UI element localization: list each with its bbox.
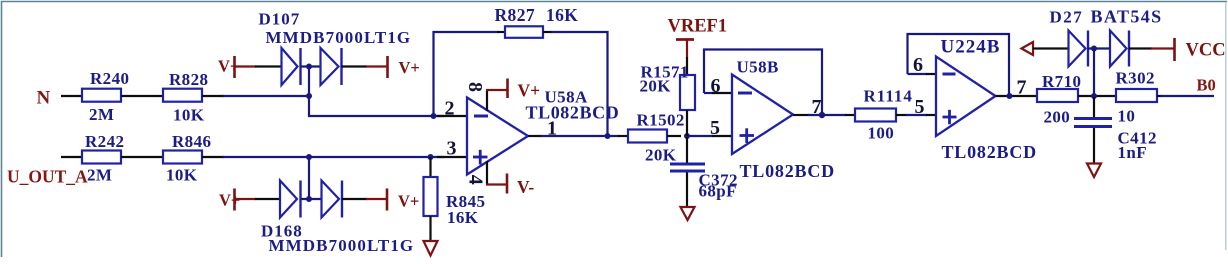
diode D27 BAT54S xyxy=(1050,7,1163,67)
wire R240 to R828 xyxy=(121,95,163,97)
resistor R1571 xyxy=(640,57,696,136)
resistor R240 xyxy=(82,69,129,124)
svg-text:D107: D107 xyxy=(259,10,301,29)
power VREF1 xyxy=(668,17,728,59)
svg-text:U224B: U224B xyxy=(941,37,1001,58)
svg-text:D27: D27 xyxy=(1050,8,1084,27)
pin 8 power stub xyxy=(486,90,488,111)
capacitor C412 xyxy=(1074,97,1157,164)
junction node pin5 U58B xyxy=(684,133,690,139)
wire to D107 anode xyxy=(255,65,282,67)
svg-text:BAT54S: BAT54S xyxy=(1091,7,1163,27)
svg-text:VREF1: VREF1 xyxy=(668,17,728,37)
svg-text:V+: V+ xyxy=(399,58,420,77)
svg-text:10K: 10K xyxy=(173,106,205,125)
svg-text:100: 100 xyxy=(868,124,895,143)
svg-text:2: 2 xyxy=(445,98,455,120)
svg-text:R846: R846 xyxy=(172,132,211,151)
svg-text:B0: B0 xyxy=(1197,76,1216,95)
feedback wire U58B loop xyxy=(704,50,822,116)
svg-text:R828: R828 xyxy=(169,70,208,89)
diode D168 xyxy=(261,181,414,256)
power V- bar at pin 4 xyxy=(486,174,534,198)
svg-text:16K: 16K xyxy=(447,208,479,227)
svg-text:U_OUT_A: U_OUT_A xyxy=(7,167,88,187)
svg-text:TL082BCD: TL082BCD xyxy=(942,142,1037,162)
wire D168 cathode to V+ xyxy=(342,198,367,200)
svg-text:R240: R240 xyxy=(90,69,129,88)
pin 4 power stub xyxy=(486,161,488,185)
wire to D168 anode xyxy=(255,198,280,200)
svg-text:16K: 16K xyxy=(546,5,578,25)
wire U58B output xyxy=(793,114,809,116)
svg-text:6: 6 xyxy=(913,54,923,76)
svg-text:6: 6 xyxy=(711,75,721,97)
svg-text:7: 7 xyxy=(812,96,822,118)
svg-text:2M: 2M xyxy=(87,166,112,185)
junction row2/D168 column xyxy=(306,154,312,160)
svg-text:3: 3 xyxy=(447,138,457,160)
svg-text:1nF: 1nF xyxy=(1118,143,1148,162)
wire pin6 U58B xyxy=(704,92,713,94)
svg-text:TL082BCD: TL082BCD xyxy=(740,161,835,181)
svg-text:VCC: VCC xyxy=(1186,41,1226,61)
wire pin6 U224B xyxy=(908,73,928,75)
junction D168 midpoint xyxy=(306,196,312,202)
op-amp U58A xyxy=(467,88,619,175)
junction C412 node xyxy=(1091,93,1097,99)
junction pin2/feedback xyxy=(431,113,437,119)
resistor R1114 xyxy=(845,87,913,143)
svg-text:20K: 20K xyxy=(640,77,672,96)
wire D27 cathode to VCC xyxy=(1129,47,1152,49)
svg-text:R1114: R1114 xyxy=(864,87,913,106)
power VCC bar xyxy=(1151,38,1226,61)
svg-text:68pF: 68pF xyxy=(699,182,737,201)
power V+ bar at pin 8 xyxy=(486,79,540,101)
svg-text:20K: 20K xyxy=(645,146,677,165)
resistor R710 xyxy=(1037,72,1081,127)
svg-text:200: 200 xyxy=(1044,108,1071,127)
wire N to R240 xyxy=(61,95,82,97)
wire R827 to output node xyxy=(543,31,552,33)
op-amp U224B xyxy=(936,37,1037,163)
svg-text:TL082BCD: TL082BCD xyxy=(526,103,620,123)
svg-text:5: 5 xyxy=(710,117,720,139)
ground arrow below C412 xyxy=(1087,164,1101,178)
svg-text:MMDB7000LT1G: MMDB7000LT1G xyxy=(266,28,412,47)
wire R1114 to pin5 U224B xyxy=(906,114,927,116)
power arrow below R845 xyxy=(424,241,438,256)
wire R828 to node xyxy=(202,95,224,97)
junction U224B output/feedback xyxy=(1007,93,1013,99)
svg-text:N: N xyxy=(37,88,51,109)
svg-text:R710: R710 xyxy=(1042,72,1081,91)
wire U224B output xyxy=(996,95,1038,97)
power V+ bar left of D107 xyxy=(218,56,256,78)
feedback wire U224B loop xyxy=(908,34,1010,96)
diode D107 xyxy=(259,10,412,86)
wire R302 to B0 xyxy=(1157,95,1162,97)
wire node to pin5 xyxy=(687,135,713,137)
junction row2/R845 xyxy=(428,154,434,160)
resistor R846 xyxy=(163,132,211,185)
svg-text:10: 10 xyxy=(1118,107,1136,126)
wire D107 mid down to row1 xyxy=(308,67,310,97)
wire U58A output xyxy=(528,135,542,137)
power arrow left of D27 xyxy=(1022,42,1034,55)
wire D27 mid down to output row xyxy=(1093,49,1095,97)
resistor R302 xyxy=(1116,69,1158,126)
wire D168 mid up to row2 xyxy=(308,157,310,199)
power V+ bar right of D107 xyxy=(366,56,420,78)
wire arrow to D27 xyxy=(1033,47,1069,49)
junction D27 midpoint xyxy=(1091,46,1097,52)
feedback wire R827 loop xyxy=(434,32,499,116)
svg-text:V-: V- xyxy=(517,177,534,197)
resistor R828 xyxy=(163,70,208,125)
op-amp U58B xyxy=(732,58,835,182)
resistor R242 xyxy=(82,132,124,185)
svg-text:2M: 2M xyxy=(89,105,114,124)
wire R242 to R846 xyxy=(121,156,163,158)
svg-text:R242: R242 xyxy=(85,132,124,151)
resistor R1502 xyxy=(618,111,685,165)
svg-text:U58B: U58B xyxy=(737,58,779,77)
svg-text:8: 8 xyxy=(464,82,486,92)
power V+ bar left of D168 xyxy=(219,189,256,211)
wire R710 to node xyxy=(1078,95,1116,97)
resistor R827 xyxy=(495,5,579,38)
capacitor C372 xyxy=(670,137,738,207)
svg-text:R302: R302 xyxy=(1116,69,1155,88)
wire step down to pin2 xyxy=(309,96,444,116)
svg-text:10K: 10K xyxy=(166,166,198,185)
svg-text:4: 4 xyxy=(465,175,487,185)
svg-text:V+: V+ xyxy=(398,192,419,211)
power V+ bar right of D168 xyxy=(366,189,419,211)
svg-text:R827: R827 xyxy=(495,5,536,25)
svg-text:R1502: R1502 xyxy=(637,111,685,130)
ground arrow below C372 xyxy=(681,207,695,220)
junction D107 midpoint xyxy=(306,64,312,70)
svg-text:V+: V+ xyxy=(518,81,541,101)
junction U58B output/feedback xyxy=(819,112,825,118)
svg-text:MMDB7000LT1G: MMDB7000LT1G xyxy=(269,236,415,255)
wire D107 cathode to V+ xyxy=(342,65,368,67)
svg-text:7: 7 xyxy=(1017,77,1027,99)
svg-text:5: 5 xyxy=(915,96,925,118)
wire U_OUT_A to R242 xyxy=(61,156,82,158)
resistor R845 xyxy=(424,157,486,241)
junction output/feedback xyxy=(605,133,611,139)
wire R846 to pin3 xyxy=(202,156,224,158)
junction row1/D107 column xyxy=(306,93,312,99)
